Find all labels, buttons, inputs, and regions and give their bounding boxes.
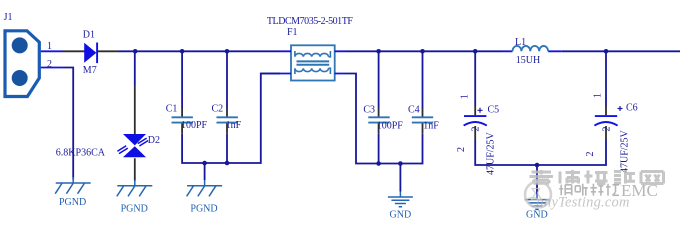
svg-text:F1: F1 bbox=[287, 27, 298, 38]
svg-text:GND: GND bbox=[526, 209, 548, 220]
svg-text:2: 2 bbox=[456, 147, 467, 152]
svg-text:47UF/25V: 47UF/25V bbox=[620, 129, 631, 173]
svg-text:1: 1 bbox=[47, 41, 52, 52]
svg-text:anyTesting.com: anyTesting.com bbox=[537, 195, 630, 211]
svg-text:C1: C1 bbox=[166, 104, 178, 115]
svg-text:1: 1 bbox=[593, 93, 604, 98]
svg-text:PGND: PGND bbox=[121, 204, 148, 215]
svg-text:GND: GND bbox=[390, 209, 412, 220]
svg-text:2: 2 bbox=[471, 127, 482, 132]
svg-text:6.8KP36CA: 6.8KP36CA bbox=[56, 148, 106, 159]
svg-text:C3: C3 bbox=[363, 104, 375, 115]
svg-text:C2: C2 bbox=[212, 104, 224, 115]
svg-text:100PF: 100PF bbox=[181, 120, 208, 131]
svg-text:D2: D2 bbox=[148, 135, 160, 146]
svg-text:2: 2 bbox=[585, 152, 596, 157]
svg-text:2: 2 bbox=[47, 59, 52, 70]
svg-text:15UH: 15UH bbox=[516, 55, 540, 66]
svg-text:C4: C4 bbox=[408, 104, 420, 115]
svg-text:L1: L1 bbox=[515, 37, 526, 48]
svg-text:C6: C6 bbox=[626, 103, 638, 114]
svg-text:47UF/25V: 47UF/25V bbox=[486, 131, 497, 175]
svg-text:100PF: 100PF bbox=[377, 121, 404, 132]
svg-text:1nF: 1nF bbox=[226, 120, 242, 131]
svg-text:PGND: PGND bbox=[190, 204, 217, 215]
svg-text:M7: M7 bbox=[83, 65, 97, 76]
svg-text:TLDCM7035-2-501TF: TLDCM7035-2-501TF bbox=[267, 16, 353, 27]
svg-text:PGND: PGND bbox=[59, 197, 86, 208]
svg-text:D1: D1 bbox=[83, 30, 95, 41]
svg-text:2: 2 bbox=[601, 127, 612, 132]
svg-text:J1: J1 bbox=[4, 12, 13, 23]
svg-text:C5: C5 bbox=[488, 104, 500, 115]
svg-text:1: 1 bbox=[460, 94, 471, 99]
svg-text:1nF: 1nF bbox=[423, 121, 439, 132]
